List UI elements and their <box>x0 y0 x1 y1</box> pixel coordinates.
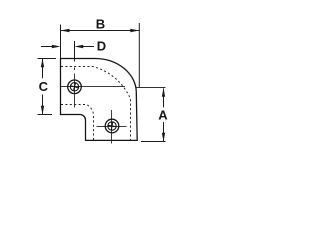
svg-text:A: A <box>158 107 168 122</box>
svg-text:B: B <box>96 16 105 31</box>
svg-text:D: D <box>97 38 106 53</box>
svg-text:C: C <box>39 79 49 94</box>
